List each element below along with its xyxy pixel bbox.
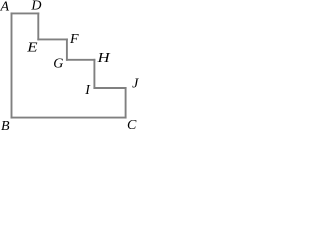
svg-text:G: G [53,57,63,72]
node G [53,57,63,72]
node B [1,119,10,134]
wire left edge A-B [11,13,13,117]
wire step E-F [38,38,67,40]
node D [30,0,41,14]
wire step G-H [67,59,95,61]
svg-text:H: H [96,51,110,66]
wire bottom edge B-C [12,117,126,119]
node C [127,118,137,133]
node H [96,51,110,66]
svg-text:C: C [127,118,137,131]
node A [0,0,10,15]
svg-text:B: B [1,119,10,131]
svg-text:J: J [132,77,139,92]
wire step F-G [66,39,68,59]
svg-text:E: E [26,41,38,56]
node J [132,77,139,92]
wire step H-I [93,60,95,88]
svg-text:F: F [69,32,79,47]
node F [69,32,79,47]
node I [84,83,91,98]
svg-text:D: D [30,0,41,14]
wire top edge A-D [12,12,39,14]
svg-text:I: I [84,83,91,98]
svg-text:A: A [0,0,10,15]
node E [26,41,38,56]
wire step D-E [37,13,39,39]
wire step I-J [94,87,125,89]
wire right edge J-C [125,88,127,118]
